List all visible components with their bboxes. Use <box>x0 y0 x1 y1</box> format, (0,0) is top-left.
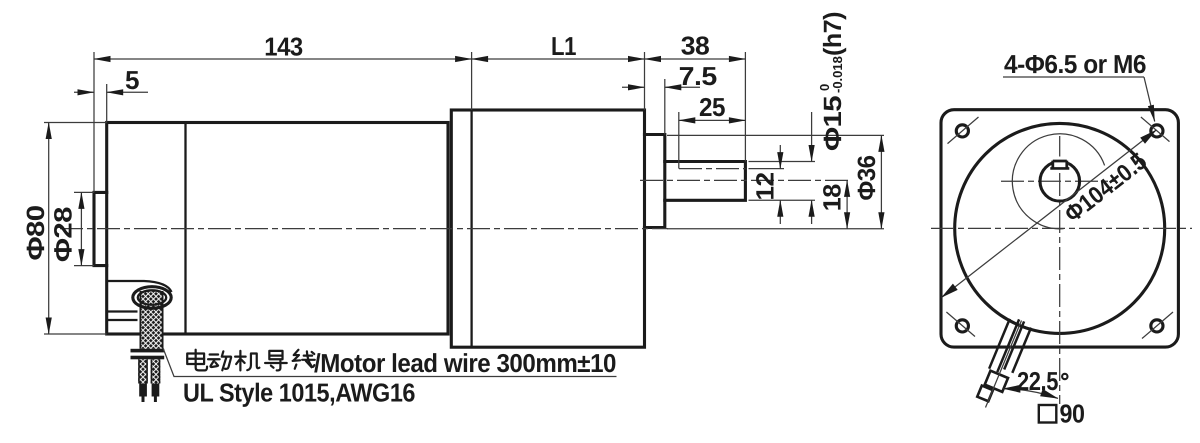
extension flat <box>749 168 785 170</box>
shaft circle with keyway <box>1040 162 1080 202</box>
extension line gearbox rim <box>471 52 473 110</box>
svg-text:7.5: 7.5 <box>679 61 717 91</box>
front centerline vertical <box>1059 136 1061 404</box>
extension line shaft end <box>744 52 746 162</box>
connector terminals <box>139 384 147 397</box>
lead wire left <box>138 359 148 383</box>
dim Phi80 <box>44 122 107 124</box>
svg-text:-0.018: -0.018 <box>830 56 845 93</box>
dim 7.5 <box>622 86 645 88</box>
mounting hole top-right <box>1151 125 1163 137</box>
boss circle Phi36 arc <box>1012 134 1104 229</box>
front centerline horizontal <box>931 227 1192 229</box>
dim Phi15 h7 <box>811 112 813 162</box>
svg-text:Φ28: Φ28 <box>50 206 78 262</box>
rear boss Phi28 <box>94 192 107 265</box>
shaft centerline <box>640 179 852 181</box>
mounting hole top-left <box>956 125 968 137</box>
square symbol 90 <box>1039 405 1057 423</box>
svg-text:Φ15: Φ15 <box>819 95 847 151</box>
motor body outline <box>107 123 448 335</box>
svg-text:22.5: 22.5 <box>1017 366 1058 396</box>
shaft flat hidden line <box>679 168 745 170</box>
extension shaft bottom <box>749 199 816 201</box>
extension line flat start <box>678 112 680 169</box>
lead wires front view <box>977 316 1032 406</box>
dim 143 <box>94 58 472 60</box>
extension line gearbox face <box>644 52 646 110</box>
motor lead cable braided <box>140 291 164 349</box>
svg-text:38: 38 <box>681 31 710 61</box>
angle dim 22.5 <box>1003 389 1058 399</box>
svg-text:Φ36: Φ36 <box>853 156 881 201</box>
gearbox body <box>451 110 644 347</box>
extension shaft top <box>749 161 816 163</box>
extension line boss end <box>664 79 666 135</box>
motor circle Phi80 <box>955 123 1165 333</box>
wire axis centerline <box>986 321 1022 408</box>
output shaft Phi15 <box>665 162 746 201</box>
leader line for lead wire note <box>163 348 617 377</box>
extension line rear face <box>93 52 95 192</box>
svg-text:5: 5 <box>125 65 139 95</box>
svg-text:143: 143 <box>264 32 303 62</box>
char ji <box>235 351 259 371</box>
shaft centerline horizontal <box>1001 180 1115 182</box>
note text line 1 (CJK drawn as paths) <box>187 350 315 371</box>
char xian <box>293 350 315 369</box>
extension boss top <box>667 134 884 136</box>
extension line motor front <box>106 84 108 123</box>
motor seam line <box>184 123 186 335</box>
lead wire right <box>151 359 161 383</box>
gearbox rim line <box>470 110 472 347</box>
svg-text:25: 25 <box>699 92 725 122</box>
bearing boss Phi36 <box>645 135 665 228</box>
svg-text:/Motor lead wire 300mm±10: /Motor lead wire 300mm±10 <box>314 348 616 378</box>
dim 38 <box>645 58 746 60</box>
svg-text:12: 12 <box>751 173 779 201</box>
char dian <box>187 350 207 371</box>
svg-text:Φ104±0.5: Φ104±0.5 <box>1060 148 1152 228</box>
mounting hole bottom-left <box>956 320 968 332</box>
char dong <box>208 351 231 370</box>
extension axis level <box>667 228 884 230</box>
svg-text:18: 18 <box>819 184 847 212</box>
gearbox square face <box>941 110 1178 347</box>
dim Phi36 <box>880 135 882 228</box>
dim Phi104 diagonal <box>942 130 1157 298</box>
svg-text:(h7): (h7) <box>819 12 847 56</box>
dim 12 <box>779 145 781 169</box>
char dao <box>265 351 287 371</box>
svg-text:L1: L1 <box>551 31 576 61</box>
main centerline <box>60 228 668 230</box>
mounting hole bottom-right <box>1151 320 1163 332</box>
svg-text:4-Φ6.5 or M6: 4-Φ6.5 or M6 <box>1004 49 1146 79</box>
svg-text:Φ80: Φ80 <box>22 206 50 261</box>
svg-text:UL Style 1015,AWG16: UL Style 1015,AWG16 <box>183 378 415 408</box>
dim 18 <box>846 180 848 228</box>
dim 25 <box>679 119 746 121</box>
dim 5 <box>74 91 94 93</box>
dim Phi28 <box>74 191 94 193</box>
dim L1 <box>472 58 645 60</box>
cable clamp <box>131 349 165 353</box>
cable grommet <box>107 281 172 292</box>
svg-text:90: 90 <box>1060 399 1085 429</box>
